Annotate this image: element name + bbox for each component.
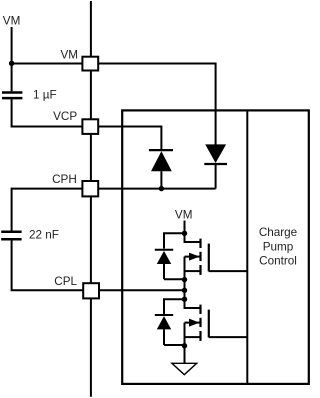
divider line of charge pump control section: [246, 110, 248, 384]
svg-text:VM: VM: [3, 15, 21, 28]
svg-text:Charge: Charge: [259, 226, 297, 239]
wire M2 drain node to body diode D4 branch: [164, 299, 185, 314]
wire capacitor C1 bottom to VCP pin: [12, 99, 83, 126]
capacitor 22 nF (bottom plate): [1, 238, 21, 241]
svg-text:VM: VM: [175, 209, 193, 222]
pin CPL (terminal box on bus): [83, 283, 99, 298]
svg-text:Control: Control: [259, 254, 297, 267]
junction dot M1 source node: [182, 277, 187, 282]
wire ground stub: [184, 346, 186, 364]
pin CPH (terminal box on bus): [82, 181, 98, 196]
svg-text:Pump: Pump: [263, 240, 294, 253]
wire M1 gate to control block: [209, 270, 248, 272]
wire D4 anode to ground node: [164, 344, 185, 346]
ground symbol: [172, 363, 197, 374]
pin VM (terminal box on bus): [82, 57, 98, 71]
wire VM node to body diode D3 branch: [164, 233, 185, 248]
diode D1 (charge pump diode to VCP, pointing up): [149, 150, 173, 189]
wire VM node to VM pin: [12, 63, 83, 65]
capacitor 1 uF (top plate): [2, 91, 22, 94]
body diode D4 (lower MOSFET, pointing up): [155, 315, 173, 345]
wire main vertical bus: [90, 1, 92, 397]
wire CPH pin to 22 nF capacitor: [12, 189, 83, 231]
body diode D3 (upper MOSFET, pointing up): [155, 250, 173, 279]
svg-text:CPH: CPH: [52, 173, 77, 186]
wire VCP pin to diode D1 cathode: [98, 127, 161, 151]
svg-text:22 nF: 22 nF: [29, 229, 59, 242]
transistor M2 (lower NMOS): [185, 299, 209, 345]
wire VM pin to diode D2 anode: [98, 64, 215, 145]
svg-text:1 µF: 1 µF: [33, 88, 57, 101]
diode D2 (charge pump diode from VM, pointing down): [204, 144, 227, 188]
wire M2 gate to control block: [209, 336, 248, 338]
capacitor 1 uF (bottom plate): [2, 97, 22, 100]
wire internal VM stub: [184, 221, 186, 234]
svg-text:VM: VM: [60, 48, 78, 61]
wire CPH pin to diode junction: [98, 188, 215, 190]
svg-text:CPL: CPL: [54, 275, 77, 288]
device outline box: [122, 110, 309, 384]
wire CPL pin to switch node: [99, 289, 185, 291]
svg-text:VCP: VCP: [53, 110, 77, 123]
capacitor 22 nF (top plate): [1, 231, 21, 234]
pin VCP (terminal box on bus): [82, 119, 98, 134]
wire from VM label down to junction: [11, 27, 13, 64]
junction dot at VM node: [9, 61, 14, 66]
block label Charge Pump Control: [259, 226, 297, 267]
transistor M1 (upper NMOS): [185, 233, 209, 279]
junction dot CPL node: [182, 288, 187, 293]
junction dot M2 drain node: [182, 297, 187, 302]
junction dot M2 source / ground node: [182, 343, 187, 348]
wire D3 anode to source node: [164, 278, 185, 280]
wire VM node down to capacitor C1 top plate: [11, 64, 13, 92]
wire switch node vertical: [184, 280, 186, 300]
junction dot D1 anode / CPH: [159, 186, 164, 191]
wire capacitor 22 nF bottom to CPL pin: [12, 240, 84, 290]
junction dot internal VM node: [182, 231, 187, 236]
